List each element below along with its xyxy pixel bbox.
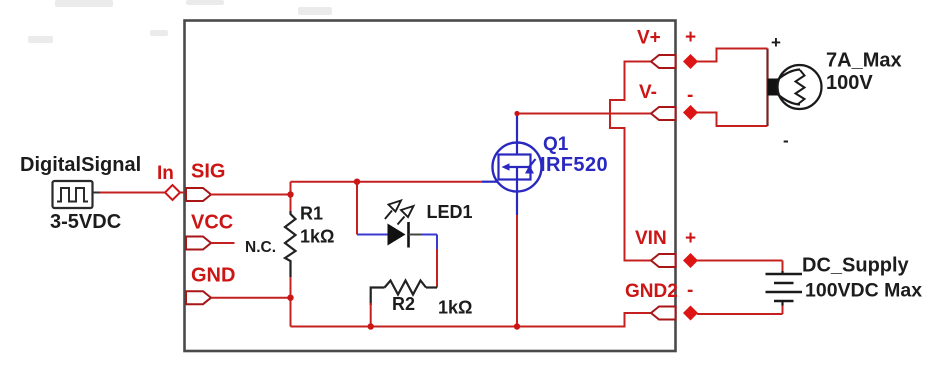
svg-text:R1: R1 <box>300 204 323 224</box>
svg-text:3-5VDC: 3-5VDC <box>50 211 121 233</box>
svg-text:V-: V- <box>639 82 657 103</box>
svg-text:100VDC Max: 100VDC Max <box>805 280 922 302</box>
svg-text:DC_Supply: DC_Supply <box>802 255 910 277</box>
svg-text:-: - <box>783 131 789 150</box>
svg-text:GND2: GND2 <box>625 281 678 302</box>
svg-text:Q1: Q1 <box>543 134 569 155</box>
svg-text:VIN: VIN <box>635 228 667 249</box>
svg-text:-: - <box>687 85 693 106</box>
svg-text:SIG: SIG <box>191 161 225 183</box>
svg-text:IRF520: IRF520 <box>540 154 608 176</box>
svg-text:V+: V+ <box>637 28 661 49</box>
svg-text:1kΩ: 1kΩ <box>438 298 472 318</box>
svg-text:1kΩ: 1kΩ <box>300 227 334 247</box>
svg-text:R2: R2 <box>392 294 415 314</box>
svg-text:-: - <box>687 280 693 301</box>
svg-text:+: + <box>771 33 781 52</box>
svg-text:100V: 100V <box>826 72 873 94</box>
svg-text:7A_Max: 7A_Max <box>826 50 902 72</box>
svg-text:VCC: VCC <box>191 212 233 234</box>
svg-text:DigitalSignal: DigitalSignal <box>20 154 141 176</box>
svg-text:+: + <box>685 228 696 249</box>
svg-text:+: + <box>685 27 696 48</box>
svg-text:LED1: LED1 <box>427 202 473 222</box>
svg-text:In: In <box>157 163 174 184</box>
svg-text:N.C.: N.C. <box>245 239 276 256</box>
svg-text:GND: GND <box>191 265 235 287</box>
